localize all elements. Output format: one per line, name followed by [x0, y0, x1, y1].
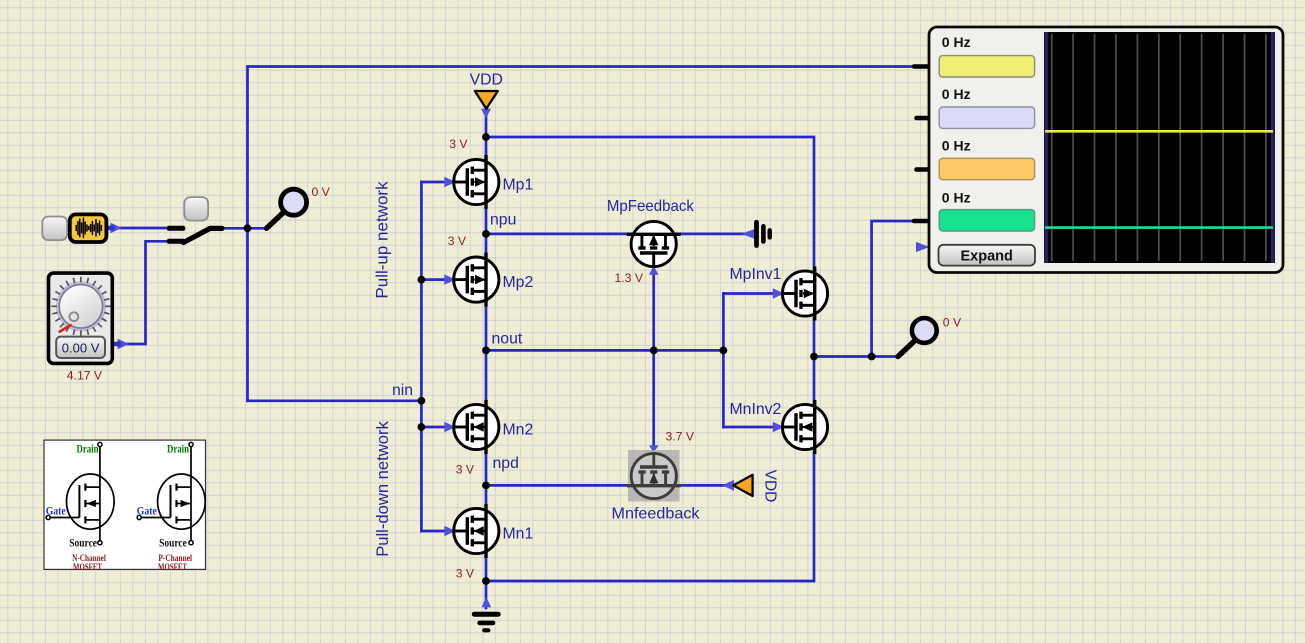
svg-text:3 V: 3 V: [449, 137, 468, 151]
svg-text:3 V: 3 V: [456, 567, 475, 581]
legend N-channel arrow: [87, 500, 96, 507]
VDD symbol right (orange triangle pointing left): [733, 475, 752, 496]
legend P-channel arrow: [181, 500, 190, 507]
scope swatch ch1 yellow: [939, 56, 1034, 77]
arrow VDD left near Mnfeedback: [722, 480, 734, 491]
junction dot output: [810, 353, 818, 361]
arrow gate Mn2: [444, 422, 455, 432]
arrow bottom ground up: [482, 597, 492, 608]
svg-text:VDD: VDD: [470, 72, 503, 89]
arrow ground right (points left): [741, 229, 754, 239]
svg-text:Pull-up network: Pull-up network: [373, 181, 392, 299]
junction dot npd: [482, 482, 490, 490]
transistor Mnfeedback (rotated, selected gray): [627, 453, 681, 498]
transistor Mp1: [454, 155, 499, 209]
scope swatch ch2 lavender: [939, 107, 1034, 128]
svg-text:Gate: Gate: [46, 505, 66, 517]
gray button left of generator: [42, 217, 67, 241]
scope swatch ch3 orange: [939, 158, 1034, 179]
switch lever: [184, 228, 223, 242]
svg-text:Drain: Drain: [167, 444, 189, 456]
transistor Mp2: [454, 253, 499, 307]
transistor MpFeedback (rotated): [627, 221, 681, 266]
scope trace green: [1045, 226, 1273, 229]
junction dot Mn2 gate: [418, 423, 426, 431]
svg-text:0 Hz: 0 Hz: [942, 189, 971, 205]
pot output stub: [114, 342, 120, 347]
blue arrowheads (gate/output arrows): [111, 109, 930, 607]
svg-text:npu: npu: [490, 212, 516, 229]
svg-text:Source: Source: [69, 537, 97, 549]
scope input stub ch1: [914, 64, 929, 69]
ground symbol right of MpFeedback: [757, 222, 770, 245]
wire gate tap Mp1: [421, 181, 452, 184]
junction dot nout mid: [650, 347, 658, 355]
arrow gate MpInv1: [773, 288, 784, 298]
wire Mnfeedback to VDD arrow: [675, 484, 724, 487]
junction dot Mp2 gate: [418, 276, 426, 284]
junction dot npu: [482, 230, 490, 238]
svg-text:MOSFET: MOSFET: [73, 562, 102, 572]
oscilloscope panel: [929, 27, 1283, 273]
junction dot nout left: [482, 347, 490, 355]
input probe lever: [267, 211, 286, 228]
legend P-channel terminals: [137, 442, 193, 544]
legend N-channel terminals: [46, 442, 102, 544]
output probe circle: [912, 318, 937, 343]
switch lower-left contact: [169, 239, 183, 244]
svg-text:Drain: Drain: [77, 444, 99, 456]
svg-text:MpInv1: MpInv1: [730, 266, 782, 283]
wire top node-to-scope: [248, 67, 916, 401]
svg-text:4.17 V: 4.17 V: [67, 369, 103, 383]
switch upper-left contact: [169, 226, 183, 231]
svg-text:0 Hz: 0 Hz: [942, 34, 971, 50]
wire gate tap MnInv2: [723, 426, 781, 429]
potentiometer knob glow: [57, 283, 104, 330]
junction dot nout right: [720, 347, 728, 355]
wire main rail Mp2-Mn2: [485, 303, 488, 404]
svg-text:0 V: 0 V: [312, 185, 331, 199]
potentiometer knob: [59, 285, 102, 328]
wire gate tap Mn1: [421, 530, 452, 533]
transistor Mn2: [454, 400, 499, 454]
wire npd Mn2-Mn1: [485, 451, 488, 507]
wire nout row: [486, 349, 723, 352]
wire gate tap MpInv1: [723, 292, 781, 295]
junction dot nin: [418, 397, 426, 405]
arrow MpFeedback gate up: [649, 266, 659, 275]
arrow pot output: [118, 339, 130, 350]
ground symbol bottom: [474, 614, 498, 630]
wire function generator output: [107, 227, 171, 230]
svg-text:3.7 V: 3.7 V: [666, 429, 695, 443]
arrow gen output: [111, 223, 122, 234]
svg-text:0 Hz: 0 Hz: [942, 86, 971, 102]
potentiometer red needle: [60, 325, 71, 331]
scope input stub ch4: [914, 219, 929, 224]
scope graticule: [1052, 34, 1266, 261]
potentiometer box: [49, 273, 113, 363]
wire nin row: [248, 399, 422, 402]
arrow VDD down: [481, 109, 491, 118]
switch button above: [184, 197, 208, 221]
arrow gate Mp1: [444, 177, 455, 187]
svg-text:MpFeedback: MpFeedback: [607, 198, 694, 215]
wire output to scope ch4: [872, 221, 916, 357]
transistor Mn1: [454, 504, 499, 558]
svg-text:Source: Source: [159, 537, 187, 549]
arrow scope dangling: [916, 242, 930, 252]
junction dot input node: [244, 224, 252, 232]
function generator box: [70, 214, 107, 242]
transistor MnInv2: [782, 400, 827, 454]
legend box: [44, 440, 206, 569]
junction dot VDD rail: [482, 133, 490, 141]
wire gate tap Mp2: [421, 278, 452, 281]
svg-text:Mn2: Mn2: [503, 422, 534, 439]
svg-text:npd: npd: [493, 455, 519, 472]
gen output stub: [108, 226, 113, 231]
svg-text:0 V: 0 V: [943, 315, 962, 329]
wire gate tap Mn2: [421, 426, 452, 429]
arrow gate Mn1: [444, 526, 455, 536]
svg-text:MOSFET: MOSFET: [158, 562, 187, 572]
svg-text:Gate: Gate: [137, 505, 157, 517]
svg-text:MnInv2: MnInv2: [730, 401, 782, 418]
wire MpFeedback gate down to Mnfeedback gate: [652, 265, 655, 447]
function generator waveform icon: [76, 218, 101, 238]
svg-text:0 Hz: 0 Hz: [942, 138, 971, 154]
svg-text:nin: nin: [392, 382, 413, 399]
wire bottom rail: [486, 450, 814, 581]
wire inverter gate bus: [722, 294, 725, 428]
svg-text:1.3 V: 1.3 V: [615, 271, 644, 285]
scope swatch ch4 green: [939, 210, 1034, 231]
legend P-channel MOSFET symbol: [141, 446, 205, 540]
scope input stub ch2: [917, 116, 930, 121]
transistor MpInv1: [782, 267, 827, 321]
potentiometer value box: [56, 337, 105, 358]
svg-text:Mp1: Mp1: [503, 177, 534, 194]
svg-text:0.00 V: 0.00 V: [62, 340, 100, 355]
wire output row: [814, 355, 899, 358]
svg-text:VDD: VDD: [762, 470, 779, 503]
svg-text:nout: nout: [492, 331, 523, 348]
wire npd to Mnfeedback: [486, 484, 632, 487]
svg-text:Mn1: Mn1: [503, 526, 534, 543]
wire VDD rail to right: [486, 137, 814, 274]
scope screen: [1044, 32, 1275, 263]
input probe circle: [281, 189, 307, 215]
arrow gate MnInv2: [773, 422, 784, 432]
svg-text:3 V: 3 V: [448, 234, 467, 248]
wire npu Mp1-Mp2: [485, 206, 488, 256]
junction dot output-scope: [868, 353, 876, 361]
svg-text:Mnfeedback: Mnfeedback: [612, 506, 700, 523]
potentiometer knob dot: [70, 312, 79, 321]
junction dot bottom rail: [482, 577, 490, 585]
wire npu to MpFeedback: [486, 233, 632, 236]
output probe lever: [898, 340, 916, 357]
arrow gate Mp2: [444, 274, 455, 284]
selection highlight Mnfeedback: [628, 450, 680, 502]
wire switch common to input node: [222, 227, 267, 230]
wire Mn1 source to ground: [485, 555, 488, 608]
svg-text:Mp2: Mp2: [503, 274, 534, 291]
scope input stub ch3: [917, 167, 930, 172]
wire potentiometer output to switch lower contact: [112, 241, 170, 344]
legend N-channel MOSFET symbol: [50, 446, 114, 540]
VDD symbol top (orange triangle): [475, 91, 498, 109]
scope Expand button: [939, 245, 1036, 266]
svg-text:Pull-down network: Pull-down network: [373, 421, 392, 557]
arrow Mnfeedback gate down: [649, 445, 659, 452]
thick blue lead stubs: [108, 228, 120, 344]
wire gate bus vertical: [420, 182, 423, 531]
scope trace yellow: [1045, 130, 1273, 133]
potentiometer knob ticks: [51, 277, 110, 336]
wire MpFeedback to ground: [675, 233, 743, 236]
wire VDD to Mp1 drain: [485, 109, 488, 159]
wire inverter middle: [813, 313, 816, 405]
svg-text:3 V: 3 V: [456, 463, 475, 477]
svg-text:Expand: Expand: [961, 248, 1013, 264]
